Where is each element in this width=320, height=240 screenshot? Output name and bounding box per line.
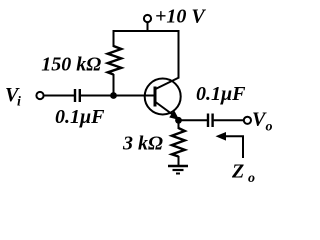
input terminal Vi bbox=[36, 92, 43, 99]
svg-text:0.1μF: 0.1μF bbox=[196, 83, 246, 105]
resistor R2 3 kOhm bbox=[172, 128, 185, 157]
svg-text:Z: Z bbox=[231, 161, 244, 183]
wire capacitor to output terminal bbox=[214, 119, 244, 121]
wire emitter to output capacitor bbox=[179, 119, 208, 121]
label Vi bbox=[5, 84, 21, 109]
svg-text:0.1μF: 0.1μF bbox=[55, 106, 105, 128]
wire emitter to resistor bbox=[178, 120, 180, 129]
node base junction bbox=[110, 92, 117, 99]
svg-text:o: o bbox=[266, 120, 273, 135]
wire capacitor to base bbox=[81, 95, 154, 97]
svg-text:i: i bbox=[17, 95, 21, 110]
wire top rail bbox=[113, 30, 180, 32]
node emitter bbox=[175, 117, 182, 124]
resistor R1 150 kOhm bbox=[108, 46, 122, 75]
svg-text:o: o bbox=[248, 171, 255, 186]
svg-text:+10 V: +10 V bbox=[155, 6, 206, 28]
impedance arrow Zo bbox=[216, 132, 244, 158]
label Vo bbox=[252, 109, 273, 135]
ground bbox=[168, 166, 188, 174]
wire left branch upper bbox=[113, 30, 115, 47]
capacitor C2 0.1uF output bbox=[208, 114, 213, 128]
transistor Q1 bbox=[145, 78, 181, 121]
label Zo bbox=[231, 161, 255, 186]
svg-text:3 kΩ: 3 kΩ bbox=[122, 133, 163, 155]
output terminal Vo bbox=[244, 117, 251, 124]
supply terminal +10V bbox=[144, 15, 151, 31]
capacitor C1 0.1uF input bbox=[75, 89, 80, 102]
svg-text:150 kΩ: 150 kΩ bbox=[41, 54, 101, 76]
wire input to capacitor bbox=[44, 95, 74, 97]
wire left branch lower bbox=[113, 74, 115, 96]
wire collector bbox=[178, 31, 180, 79]
wire resistor to ground bbox=[178, 156, 180, 166]
